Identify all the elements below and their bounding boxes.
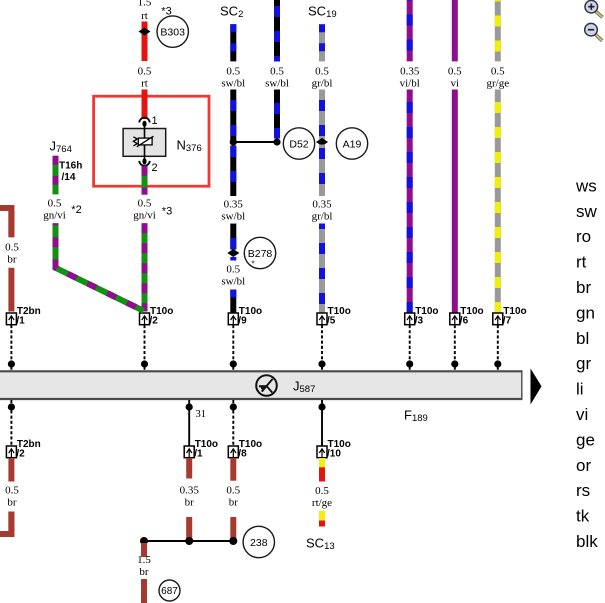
value label 0.5 sw/bl (SC2 wire) bbox=[221, 66, 245, 90]
node 687 bbox=[159, 580, 180, 601]
svg-text:tk: tk bbox=[576, 507, 590, 526]
junction dot above bus (x=497) bbox=[494, 360, 501, 367]
wire 0.35 br to junction 238 bbox=[186, 517, 192, 541]
wire gn/vi stub from J764 bbox=[53, 156, 59, 195]
legend of wire colour codes bbox=[575, 176, 598, 551]
junction dot (x=189, node 238 row) bbox=[185, 537, 193, 545]
connector T2bn/2 bbox=[6, 439, 40, 460]
pin 1 contact dot bbox=[142, 121, 146, 127]
node 238 bbox=[243, 526, 274, 557]
wire 0.5 vi from top edge bbox=[452, 0, 458, 61]
pin number 1 bbox=[152, 115, 158, 127]
value label 0.35 gr/bl bbox=[312, 199, 333, 223]
svg-text:/9: /9 bbox=[238, 316, 247, 327]
svg-text:vi/bl: vi/bl bbox=[400, 78, 420, 90]
svg-text:blk: blk bbox=[576, 532, 598, 551]
pin 1 arc of N376 bbox=[139, 118, 149, 123]
wire 0.5 sw/bl down to D52 junction bbox=[230, 90, 236, 141]
value label 0.5 gr/ge bbox=[486, 66, 509, 90]
svg-text:A19: A19 bbox=[343, 138, 362, 150]
svg-text:1.5: 1.5 bbox=[137, 554, 151, 566]
bus continuation arrow bbox=[531, 369, 542, 405]
node B278 bbox=[244, 237, 275, 268]
footnote *3 (near gn/vi label) bbox=[162, 206, 172, 218]
svg-text:/14: /14 bbox=[62, 172, 76, 183]
svg-text:rt: rt bbox=[141, 78, 148, 90]
connector T10o/3 bbox=[405, 306, 439, 327]
svg-text:/3: /3 bbox=[415, 316, 424, 327]
svg-text:rs: rs bbox=[576, 481, 590, 500]
wire 0.5 sw/bl down to D52 bbox=[274, 90, 280, 139]
svg-text:0.5: 0.5 bbox=[315, 66, 329, 78]
wire 0.35 sw/bl below junction bbox=[230, 146, 236, 197]
wire link to D52 (horizontal) bbox=[233, 141, 277, 143]
wire 0.5 br entering from left edge bbox=[0, 208, 11, 237]
label J587 bbox=[293, 379, 315, 396]
wire 0.5 gn/vi from J764 diagonal to T10o/2 bbox=[56, 223, 144, 311]
node A19 bbox=[336, 128, 367, 159]
junction dot above bus (x=233) bbox=[230, 360, 237, 367]
connector T2bn/1 bbox=[6, 306, 40, 327]
value label 0.5 br (left upper) bbox=[5, 242, 19, 266]
svg-text:0.5: 0.5 bbox=[226, 264, 240, 276]
junction dot below bus (x=189) bbox=[186, 403, 193, 410]
wire 0.5 br below T10o/8 bbox=[230, 458, 236, 481]
wire 0.5 gn/vi down to T10o/2 bbox=[142, 223, 148, 311]
net label SC2 bbox=[220, 4, 243, 21]
connector T10o/5 bbox=[317, 306, 351, 327]
zoom-in icon bbox=[585, 0, 603, 17]
svg-text:*3: *3 bbox=[162, 206, 172, 218]
zoom-out icon bbox=[585, 23, 603, 40]
svg-text:0.5: 0.5 bbox=[315, 485, 329, 497]
svg-text:bl: bl bbox=[576, 329, 589, 348]
ground bus J587 bar bbox=[0, 370, 522, 400]
svg-text:687: 687 bbox=[161, 586, 178, 597]
svg-text:sw/bl: sw/bl bbox=[221, 78, 245, 90]
connector T10o/10 bbox=[317, 439, 351, 460]
svg-text:ge: ge bbox=[576, 430, 595, 449]
svg-text:br: br bbox=[229, 497, 239, 509]
wire from T10o/5 to bus J587 bbox=[321, 325, 323, 371]
svg-text:vi: vi bbox=[576, 405, 588, 424]
connector label T16h/14 bbox=[59, 161, 82, 184]
wire gn/vi stub below N376 pin 2 bbox=[142, 166, 148, 195]
svg-text:ws: ws bbox=[575, 176, 597, 195]
svg-text:0.35: 0.35 bbox=[400, 66, 420, 78]
svg-text:/1: /1 bbox=[194, 449, 203, 460]
wire 0.35 gr/bl down to T10o/5 bbox=[319, 224, 325, 314]
junction dot (x=233, node 238 row) bbox=[229, 537, 237, 545]
svg-text:0.5: 0.5 bbox=[5, 242, 19, 254]
wire from T10o/7 to bus J587 bbox=[497, 325, 499, 371]
value label 0.5 br (middle) bbox=[226, 485, 240, 509]
svg-text:sw: sw bbox=[576, 202, 598, 221]
connector T10o/6 bbox=[450, 306, 484, 327]
svg-text:/5: /5 bbox=[327, 316, 336, 327]
svg-text:0.35: 0.35 bbox=[180, 485, 200, 497]
footnote *3 (top) bbox=[161, 6, 171, 18]
svg-text:rt/ge: rt/ge bbox=[312, 497, 332, 509]
wire from bus to T2bn/2 bbox=[10, 400, 12, 446]
wire from T10o/2 to bus J587 bbox=[144, 325, 146, 371]
svg-text:sw/bl: sw/bl bbox=[265, 78, 289, 90]
value label 0.5 rt bbox=[138, 66, 152, 90]
junction dot below bus (x=322) bbox=[318, 403, 325, 410]
wire from T2bn/1 to bus J587 bbox=[10, 325, 12, 371]
junction dot above bus (x=11) bbox=[8, 360, 15, 367]
svg-text:br: br bbox=[7, 497, 17, 509]
value label 0.5 sw/bl (second wire) bbox=[265, 66, 289, 90]
value label 1.5 br bbox=[137, 554, 151, 578]
svg-text:sw/bl: sw/bl bbox=[221, 211, 245, 223]
wire from T10o/3 to bus J587 bbox=[409, 325, 411, 371]
svg-text:*: * bbox=[251, 260, 254, 269]
wire 0.35 br below T10o/1 bbox=[186, 458, 192, 479]
wire from bus to T10o/1 bbox=[188, 400, 190, 446]
svg-text:/6: /6 bbox=[460, 316, 469, 327]
wire 1.5 br stub below junction bbox=[141, 543, 147, 557]
wire 0.35 vi/bl from top edge bbox=[407, 0, 413, 61]
svg-text:gr: gr bbox=[576, 354, 591, 373]
svg-text:br: br bbox=[576, 278, 591, 297]
connector T10o/9 bbox=[228, 306, 262, 327]
junction diamond at B278 tap bbox=[227, 249, 239, 257]
wire 0.5 br down to T2bn/1 bbox=[8, 268, 14, 312]
svg-text:li: li bbox=[576, 380, 584, 399]
svg-text:0.5: 0.5 bbox=[48, 198, 62, 210]
junction dot above bus (x=322) bbox=[318, 360, 325, 367]
node D52 bbox=[283, 128, 314, 159]
pin 2 contact dot bbox=[142, 158, 146, 164]
wire 0.35 vi/bl down to T10o/3 bbox=[407, 90, 413, 314]
wire from T10o/6 to bus J587 bbox=[454, 325, 456, 371]
junction dot (x=144, node 238 row) bbox=[140, 537, 148, 545]
junction dot at D52 bbox=[273, 138, 280, 145]
junction dot below bus (x=233) bbox=[230, 403, 237, 410]
op component N376 body (gray box) bbox=[123, 124, 166, 162]
wire 0.5 br to junction 238 bbox=[230, 517, 236, 541]
pin number 2 bbox=[152, 162, 158, 174]
svg-text:0.5: 0.5 bbox=[491, 66, 505, 78]
wire 0.5 gr/bl segment below SC19 bbox=[319, 24, 325, 61]
svg-text:rt: rt bbox=[141, 10, 148, 22]
value label 0.5 vi bbox=[448, 66, 462, 90]
svg-text:/1: /1 bbox=[16, 316, 25, 327]
net label SC19 bbox=[308, 4, 337, 21]
svg-text:D52: D52 bbox=[289, 138, 308, 150]
wire 0.5 gr/ge from top edge bbox=[495, 0, 501, 61]
connector T10o/2 bbox=[140, 306, 174, 327]
svg-text:/2: /2 bbox=[16, 449, 25, 460]
svg-text:B303: B303 bbox=[160, 26, 185, 38]
svg-text:2: 2 bbox=[152, 162, 158, 174]
value label 0.5 rt/ge bbox=[312, 485, 332, 509]
svg-text:/10: /10 bbox=[327, 449, 341, 460]
wire 1.5 br to bottom edge bbox=[141, 579, 147, 603]
svg-text:B278: B278 bbox=[248, 248, 273, 260]
junction dot above bus (x=144) bbox=[141, 360, 148, 367]
svg-text:0.5: 0.5 bbox=[448, 66, 462, 78]
wire 0.5 rt into N376 pin 1 bbox=[142, 90, 148, 120]
wire 0.5 gr/bl down to A19 junction bbox=[319, 90, 325, 140]
wire 0.5 vi down to T10o/6 bbox=[452, 90, 458, 314]
svg-text:gr/bl: gr/bl bbox=[312, 211, 333, 223]
svg-text:br: br bbox=[139, 566, 149, 578]
svg-text:*2: *2 bbox=[71, 204, 81, 216]
svg-text:0.5: 0.5 bbox=[226, 66, 240, 78]
value label 0.5 gn/vi (J764 wire) bbox=[43, 198, 66, 222]
value label 0.5 sw/bl (lower) bbox=[221, 264, 245, 288]
svg-text:0.35: 0.35 bbox=[224, 199, 244, 211]
junction dot above bus (x=454) bbox=[451, 360, 458, 367]
svg-text:gr/ge: gr/ge bbox=[486, 78, 509, 90]
wire 0.5 sw/bl from top edge bbox=[274, 0, 280, 61]
wire 0.5 sw/bl segment below SC2 bbox=[230, 24, 236, 61]
wire 0.35 sw/bl to B278 tap bbox=[230, 224, 236, 250]
connector T10o/7 bbox=[493, 306, 527, 327]
junction diamond at B303 tap bbox=[139, 28, 151, 36]
svg-text:or: or bbox=[576, 456, 591, 475]
junction dot at D52 tap bbox=[230, 138, 237, 145]
svg-text:0.5: 0.5 bbox=[138, 198, 152, 210]
wire 0.5 rt/ge upper segment bbox=[319, 458, 325, 482]
label F189 bbox=[404, 408, 428, 425]
wire junction link at node 238 bbox=[144, 540, 233, 542]
svg-text:238: 238 bbox=[250, 537, 268, 549]
svg-text:sw/bl: sw/bl bbox=[221, 276, 245, 288]
svg-text:0.35: 0.35 bbox=[312, 199, 332, 211]
value label 0.35 vi/bl bbox=[400, 66, 420, 90]
value label 0.35 sw/bl bbox=[221, 199, 245, 223]
ground symbol on bus (circled) bbox=[256, 375, 277, 396]
junction dot below bus (x=11) bbox=[8, 403, 15, 410]
svg-text:ro: ro bbox=[576, 227, 591, 246]
svg-text:/7: /7 bbox=[503, 316, 512, 327]
svg-text:0.5: 0.5 bbox=[138, 66, 152, 78]
svg-text:gn/vi: gn/vi bbox=[133, 210, 156, 222]
wire 0.5 gr/ge down to T10o/7 bbox=[495, 90, 501, 314]
wire 1.5 rt vertical segment bbox=[142, 22, 148, 62]
value label 1.5 rt (top feed wire) bbox=[138, 0, 152, 22]
connector T10o/8 bbox=[228, 439, 262, 460]
svg-text:0.5: 0.5 bbox=[5, 485, 19, 497]
junction diamond at A19 tap bbox=[316, 138, 328, 146]
junction dot above bus (x=409) bbox=[406, 360, 413, 367]
net label SC13 bbox=[306, 536, 335, 553]
wire blue stub below B278 tap bbox=[230, 257, 236, 261]
svg-text:/2: /2 bbox=[150, 316, 159, 327]
component frame for N376 (red outline) bbox=[94, 96, 209, 186]
wire 0.35 gr/bl below junction bbox=[319, 145, 325, 197]
wire from T10o/9 to bus J587 bbox=[232, 325, 234, 371]
svg-text:1.5: 1.5 bbox=[138, 0, 152, 9]
wire 0.5 sw/bl to T10o/9 bbox=[230, 290, 236, 314]
svg-text:0.5: 0.5 bbox=[226, 485, 240, 497]
svg-text:31: 31 bbox=[196, 409, 207, 420]
value label 0.35 br bbox=[180, 485, 200, 509]
svg-text:/8: /8 bbox=[238, 449, 247, 460]
value label 0.5 br (left lower) bbox=[5, 485, 19, 509]
wire from bus to T10o/10 bbox=[321, 400, 323, 446]
svg-text:br: br bbox=[7, 254, 17, 266]
value label 0.5 gn/vi (N376 output) bbox=[133, 198, 156, 222]
footnote *2 bbox=[71, 204, 81, 216]
connector T10o/1 bbox=[184, 439, 218, 460]
terminal label 31 bbox=[196, 409, 207, 420]
svg-text:br: br bbox=[185, 497, 195, 509]
svg-text:0.5: 0.5 bbox=[270, 66, 284, 78]
component J764 label bbox=[50, 139, 72, 156]
wire 0.5 br below T2bn/2 bbox=[8, 458, 14, 482]
svg-text:gn: gn bbox=[576, 303, 595, 322]
svg-text:rt: rt bbox=[576, 253, 587, 272]
svg-text:gr/bl: gr/bl bbox=[312, 78, 333, 90]
wire from bus to T10o/8 bbox=[232, 400, 234, 446]
wire 0.5 br exiting left edge bbox=[0, 512, 11, 535]
svg-text:vi: vi bbox=[451, 78, 460, 90]
label N376 bbox=[177, 138, 202, 155]
pin 2 arc of N376 bbox=[139, 161, 149, 166]
svg-text:T16h: T16h bbox=[59, 161, 82, 172]
valve symbol inside N376 bbox=[133, 136, 153, 147]
svg-text:gn/vi: gn/vi bbox=[43, 210, 66, 222]
node B303 bbox=[157, 16, 188, 47]
svg-text:1: 1 bbox=[152, 115, 158, 127]
value label 0.5 gr/bl bbox=[312, 66, 333, 90]
wire 0.5 rt/ge lower segment bbox=[319, 511, 325, 527]
